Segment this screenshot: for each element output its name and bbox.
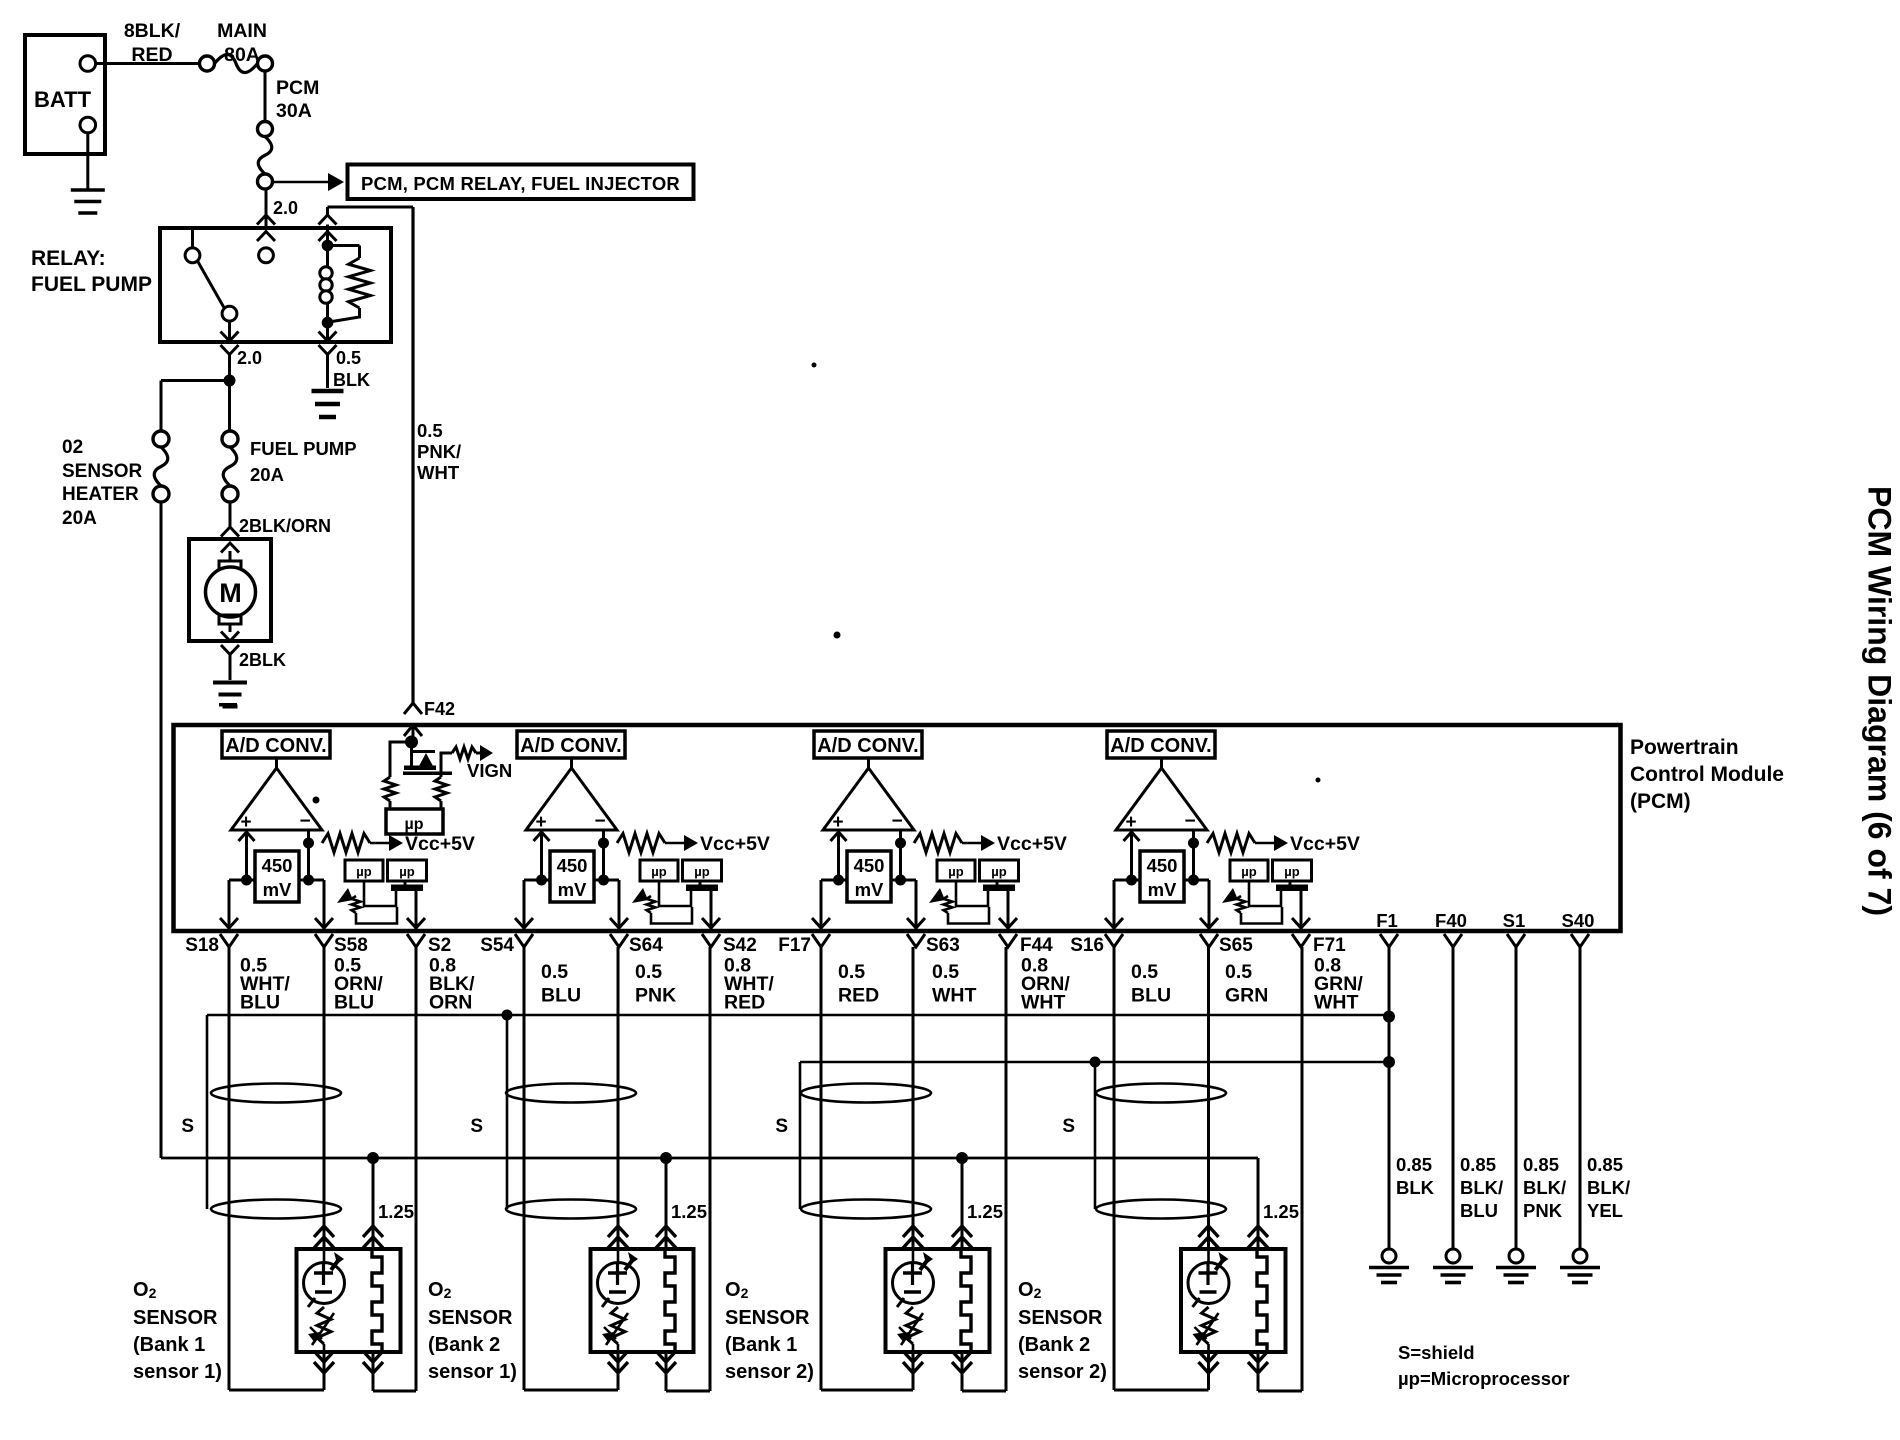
pin S16 <box>1070 934 1123 956</box>
ground battery <box>71 133 105 213</box>
svg-text:WHT: WHT <box>1314 992 1358 1014</box>
svg-text:02: 02 <box>62 437 83 458</box>
svg-text:BLU: BLU <box>1460 1200 1498 1221</box>
pin S2 <box>407 934 451 956</box>
svg-text:F42: F42 <box>424 699 455 719</box>
svg-text:FUEL PUMP: FUEL PUMP <box>250 438 357 459</box>
pin S63 <box>907 934 960 956</box>
fuse O2 SENSOR HEATER 20A <box>153 431 169 502</box>
sensor EMF source 1 <box>304 1249 345 1307</box>
op-amp triangle ch2 <box>526 758 617 833</box>
relay box <box>160 228 391 342</box>
scan artifact dots <box>219 363 1321 804</box>
svg-text:0.5: 0.5 <box>417 420 443 441</box>
junction Vcc resistor ch2 <box>598 838 609 849</box>
wire coil to ground <box>326 355 329 389</box>
relay switch contact <box>222 306 237 321</box>
svg-text:450: 450 <box>262 855 293 876</box>
shield ellipse upper group2 <box>506 1084 636 1103</box>
wire and arrow to feed box <box>274 173 344 191</box>
shield drain group3 <box>799 1062 802 1209</box>
shield drain group2 <box>506 1015 509 1209</box>
svg-text:20A: 20A <box>250 464 284 485</box>
junction Vcc resistor ch4 <box>1188 838 1199 849</box>
svg-text:sensor 2): sensor 2) <box>1018 1361 1107 1383</box>
svg-text:1.25: 1.25 <box>967 1201 1003 1222</box>
svg-text:Vcc+5V: Vcc+5V <box>700 833 770 855</box>
svg-text:mV: mV <box>855 879 884 900</box>
shield bus 2 <box>800 1061 1389 1064</box>
microprocessor bar ch3 <box>983 881 1015 891</box>
pin F71 <box>1292 934 1346 956</box>
svg-text:S: S <box>470 1116 483 1137</box>
op-amp triangle ch1 <box>231 758 322 833</box>
svg-text:S: S <box>181 1116 194 1137</box>
svg-text:BLK/: BLK/ <box>1460 1177 1503 1198</box>
sensor heater resistor 4 <box>1257 1249 1267 1352</box>
svg-text:(Bank 2: (Bank 2 <box>428 1334 500 1356</box>
svg-text:RED: RED <box>838 985 879 1007</box>
label Powertrain Control Module (PCM) <box>1630 736 1784 813</box>
svg-text:RELAY:: RELAY: <box>31 247 106 270</box>
svg-text:0.85: 0.85 <box>1460 1154 1496 1175</box>
svg-text:HEATER: HEATER <box>62 484 139 505</box>
sensor variable resistor 3 <box>897 1307 923 1352</box>
wire sensor element feed 1 <box>323 947 326 1249</box>
svg-text:−: − <box>594 811 605 832</box>
box 450 mV ch3 <box>847 851 891 902</box>
svg-text:BATT: BATT <box>34 87 92 112</box>
shield drain group1 <box>206 1015 209 1209</box>
svg-text:WHT: WHT <box>1021 992 1065 1014</box>
ground BLK <box>1369 1249 1409 1283</box>
label 0.8 BLK/ ORN <box>429 955 475 1014</box>
wire 0.85 BLK/PNK <box>1515 947 1518 1249</box>
label 0.8 ORN/ WHT <box>1021 955 1070 1014</box>
svg-text:BLK/: BLK/ <box>1587 1177 1630 1198</box>
junction shield bus 2 / group4 <box>1090 1057 1101 1068</box>
wire to pin S42 <box>702 891 720 929</box>
svg-text:Vcc+5V: Vcc+5V <box>1290 833 1360 855</box>
label 1.25 sensor2 <box>671 1201 707 1222</box>
VIGN gate wire <box>441 752 452 774</box>
shield ellipse lower group1 <box>211 1200 341 1219</box>
trimmer loop ch2 <box>659 881 691 906</box>
label 8BLK/RED <box>124 20 181 66</box>
label 0.85 BLK/PNK <box>1523 1154 1566 1221</box>
title PCM Wiring Diagram (6 of 7) <box>1862 486 1898 916</box>
svg-text:BLU: BLU <box>334 992 374 1014</box>
junction relay coil bottom <box>322 317 334 329</box>
resistor VIGN left <box>384 777 396 809</box>
pin S42 <box>702 934 757 956</box>
svg-text:1.25: 1.25 <box>378 1201 414 1222</box>
label 2.0 (switch output) <box>237 348 262 368</box>
svg-text:F1: F1 <box>1376 910 1398 931</box>
wire motor to ground <box>229 655 232 681</box>
svg-text:YEL: YEL <box>1587 1200 1623 1221</box>
svg-text:S42: S42 <box>723 935 757 956</box>
arrows out of sensor 4 <box>1199 1351 1269 1373</box>
svg-text:F40: F40 <box>1435 910 1467 931</box>
motor output arrows <box>221 632 239 655</box>
svg-text:0.85: 0.85 <box>1587 1154 1623 1175</box>
op-amp + input ch4 <box>1124 832 1140 880</box>
relay supply pin <box>259 248 274 263</box>
A/D converter box ch2 <box>517 731 625 758</box>
label 1.25 sensor4 <box>1263 1201 1299 1222</box>
label O2 SENSOR 3 <box>725 1279 814 1383</box>
wire to pin F71 <box>1292 891 1310 929</box>
svg-text:µp: µp <box>356 864 371 879</box>
label 0.5 RED <box>838 961 879 1007</box>
svg-text:µp: µp <box>694 864 709 879</box>
label 1.25 sensor1 <box>378 1201 414 1222</box>
O2 sensor box 4 <box>1181 1249 1286 1352</box>
wire sensor bottom 1 <box>324 947 416 1391</box>
wire signal return 3 <box>821 947 913 1390</box>
wire heater feed 4 <box>1257 1158 1260 1249</box>
svg-text:sensor 2): sensor 2) <box>725 1361 814 1383</box>
label VIGN <box>467 760 512 781</box>
svg-text:µp: µp <box>1241 864 1256 879</box>
O2 heater feed bus <box>161 502 1258 1249</box>
VIGN transistor <box>403 742 452 775</box>
wire fuse to motor <box>229 502 232 528</box>
svg-text:SENSOR: SENSOR <box>725 1307 810 1329</box>
svg-text:S54: S54 <box>480 935 514 956</box>
relay coil output arrows <box>319 323 337 355</box>
junction fuel pump / O2 heater <box>224 375 236 387</box>
svg-text:VIGN: VIGN <box>467 760 512 781</box>
svg-text:BLU: BLU <box>240 992 280 1014</box>
label 0.5 WHT <box>932 961 976 1007</box>
op-amp - input ch2 <box>602 830 605 880</box>
trimmer ch3 <box>929 888 989 924</box>
svg-text:sensor 1): sensor 1) <box>133 1361 222 1383</box>
relay coil input arrows <box>319 215 337 241</box>
pin S1 <box>1503 910 1526 947</box>
A/D converter box ch3 <box>814 731 922 758</box>
svg-text:PCM Wiring Diagram (6 of 7): PCM Wiring Diagram (6 of 7) <box>1862 486 1898 916</box>
motor brush bottom <box>219 615 241 632</box>
svg-text:A/D CONV.: A/D CONV. <box>520 735 622 757</box>
svg-text:RED: RED <box>724 992 765 1014</box>
microprocessor boxes ch4 <box>1230 860 1312 881</box>
wire heater feed 2 <box>665 1158 668 1249</box>
O2 sensor box 2 <box>591 1249 694 1352</box>
svg-text:Vcc+5V: Vcc+5V <box>997 833 1067 855</box>
wire sensor element feed 4 <box>1207 947 1210 1249</box>
op-amp + input ch1 <box>239 832 255 880</box>
label S group2 <box>470 1116 483 1137</box>
shield ellipse lower group4 <box>1096 1200 1226 1219</box>
label FUEL PUMP 20A <box>250 438 357 485</box>
box 450 mV ch1 <box>255 851 299 902</box>
label O2 SENSOR HEATER 20A <box>62 437 143 529</box>
svg-text:F71: F71 <box>1313 935 1346 956</box>
label 2.0 (relay feed) <box>273 198 298 218</box>
legend up=Microprocessor <box>1398 1368 1570 1389</box>
wire relay to junction <box>228 355 231 432</box>
label MAIN 80A <box>217 20 267 66</box>
pin S18 <box>185 934 238 956</box>
relay switch output arrows <box>221 321 239 355</box>
svg-text:MAIN: MAIN <box>217 20 267 42</box>
wire to pin S63 <box>907 880 925 929</box>
sensor EMF source 2 <box>598 1249 639 1307</box>
svg-text:80A: 80A <box>224 44 260 66</box>
box 450 mV ch4 <box>1140 851 1184 902</box>
op-amp triangle ch3 <box>823 758 914 833</box>
shield drain group4 <box>1094 1062 1097 1209</box>
trimmer loop ch4 <box>1249 881 1281 906</box>
wire 0.85 BLK/BLU <box>1452 947 1455 1249</box>
label Vcc+5V ch1 <box>405 833 475 855</box>
junctions 450mV ch3 <box>821 875 916 886</box>
svg-text:20A: 20A <box>62 508 97 529</box>
resistor VIGN right <box>435 777 447 809</box>
label Vcc+5V ch2 <box>700 833 770 855</box>
resistor VIGN <box>452 745 493 761</box>
svg-text:PNK: PNK <box>635 985 676 1007</box>
svg-text:SENSOR: SENSOR <box>133 1307 218 1329</box>
svg-text:0.5: 0.5 <box>1225 961 1252 983</box>
label S group1 <box>181 1116 194 1137</box>
svg-text:S: S <box>775 1116 788 1137</box>
relay pin arrows (supply) <box>257 215 275 241</box>
svg-text:GRN: GRN <box>1225 985 1268 1007</box>
wire junction to O2 heater fuse <box>161 381 230 432</box>
svg-text:BLK: BLK <box>333 370 370 390</box>
A/D converter box ch1 <box>222 731 330 758</box>
op-amp - input ch3 <box>899 830 902 880</box>
sensor EMF source 3 <box>893 1249 934 1307</box>
microprocessor boxes ch3 <box>937 860 1019 881</box>
trimmer loop ch1 <box>364 881 396 906</box>
label 2BLK <box>239 650 286 670</box>
arrows into sensor 2 <box>608 1226 676 1248</box>
svg-text:0.5: 0.5 <box>1131 961 1158 983</box>
label Vcc+5V ch3 <box>997 833 1067 855</box>
arrows out of sensor 3 <box>903 1351 972 1373</box>
ground fuel pump motor <box>213 683 247 707</box>
wire to pin S2 <box>407 891 425 929</box>
microprocessor boxes ch2 <box>640 860 722 881</box>
sensor heater resistor 1 <box>372 1249 382 1352</box>
label 0.5 ORN/ BLU <box>334 955 383 1014</box>
svg-text:µp: µp <box>651 864 666 879</box>
svg-text:2BLK: 2BLK <box>239 650 286 670</box>
arrows into sensor 3 <box>903 1226 972 1248</box>
svg-text:A/D CONV.: A/D CONV. <box>225 735 327 757</box>
svg-text:0.85: 0.85 <box>1396 1154 1432 1175</box>
wire gate to right resistor <box>440 774 443 777</box>
wire sensor bottom 3 <box>913 947 1006 1391</box>
ground BLK/YEL <box>1560 1249 1600 1283</box>
legend S=shield <box>1398 1342 1475 1363</box>
wire to pin S18 <box>220 880 238 929</box>
op-amp - input ch1 <box>307 830 310 880</box>
junction Vcc resistor ch3 <box>895 838 906 849</box>
op-amp + input ch3 <box>831 832 847 880</box>
label 1.25 sensor3 <box>967 1201 1003 1222</box>
wire to left resistor <box>390 742 412 777</box>
svg-text:Vcc+5V: Vcc+5V <box>405 833 475 855</box>
svg-text:BLK: BLK <box>1396 1177 1435 1198</box>
sensor heater resistor 3 <box>961 1249 971 1352</box>
svg-text:(PCM): (PCM) <box>1630 790 1691 813</box>
svg-text:2.0: 2.0 <box>273 198 298 218</box>
label 0.8 GRN/ WHT <box>1314 955 1363 1014</box>
wire to pin S16 <box>1105 880 1123 929</box>
svg-text:0.5: 0.5 <box>635 961 662 983</box>
svg-text:S: S <box>1062 1116 1075 1137</box>
svg-text:sensor 1): sensor 1) <box>428 1361 517 1383</box>
label O2 SENSOR 1 <box>133 1279 222 1383</box>
svg-text:S64: S64 <box>629 935 663 956</box>
pin F42 <box>404 699 455 736</box>
sensor variable resistor 2 <box>602 1307 628 1352</box>
motor M <box>206 567 256 617</box>
svg-text:8BLK/: 8BLK/ <box>124 20 181 42</box>
svg-text:µp: µp <box>399 864 414 879</box>
svg-text:BLU: BLU <box>541 985 581 1007</box>
junction Vcc resistor ch1 <box>303 838 314 849</box>
svg-text:S2: S2 <box>428 935 451 956</box>
svg-text:S18: S18 <box>185 935 219 956</box>
wire sensor element feed 2 <box>617 947 620 1249</box>
shield ellipse lower group3 <box>801 1200 931 1219</box>
svg-text:−: − <box>299 811 310 832</box>
wire fuse to relay <box>265 190 268 229</box>
arrows out of sensor 1 <box>314 1351 383 1373</box>
svg-text:mV: mV <box>263 879 292 900</box>
wire sensor element feed 3 <box>912 947 915 1249</box>
svg-text:ORN: ORN <box>429 992 472 1014</box>
svg-text:S63: S63 <box>926 935 960 956</box>
svg-text:S=shield: S=shield <box>1398 1342 1475 1363</box>
box 450 mV ch2 <box>550 851 594 902</box>
svg-text:30A: 30A <box>276 100 312 122</box>
svg-text:SENSOR: SENSOR <box>62 461 143 482</box>
svg-text:mV: mV <box>1148 879 1177 900</box>
wire sensor bottom 4 <box>1209 947 1303 1391</box>
sensor variable resistor 1 <box>308 1307 334 1352</box>
shield ellipse upper group4 <box>1096 1084 1226 1103</box>
svg-text:F44: F44 <box>1020 935 1053 956</box>
shield ellipse lower group2 <box>506 1200 636 1219</box>
svg-text:0.5: 0.5 <box>932 961 959 983</box>
microprocessor bar ch4 <box>1276 881 1308 891</box>
svg-text:S58: S58 <box>334 935 368 956</box>
relay coil <box>320 246 332 323</box>
trimmer ch4 <box>1222 888 1282 924</box>
svg-text:µp=Microprocessor: µp=Microprocessor <box>1398 1368 1570 1389</box>
pin S40 <box>1562 910 1595 947</box>
op-amp triangle ch4 <box>1116 758 1207 833</box>
pin S65 <box>1200 934 1253 956</box>
resistor Vcc+5V ch2 <box>617 834 698 853</box>
svg-text:0.5: 0.5 <box>541 961 568 983</box>
svg-text:1.25: 1.25 <box>1263 1201 1299 1222</box>
svg-text:PNK/: PNK/ <box>417 441 461 462</box>
svg-text:+: + <box>832 812 843 833</box>
relay coil resistor (parallel) <box>328 246 371 323</box>
svg-text:(Bank 2: (Bank 2 <box>1018 1334 1090 1356</box>
pin F44 <box>999 934 1053 956</box>
label RELAY: FUEL PUMP <box>31 247 152 296</box>
resistor Vcc+5V ch3 <box>914 834 995 853</box>
ground relay coil <box>312 391 344 417</box>
wire to pin S65 <box>1200 880 1218 929</box>
op-amp - input ch4 <box>1192 830 1195 880</box>
wire to pin F44 <box>999 891 1017 929</box>
svg-text:+: + <box>535 812 546 833</box>
label PCM 30A <box>276 77 319 122</box>
svg-text:mV: mV <box>558 879 587 900</box>
svg-text:SENSOR: SENSOR <box>1018 1307 1103 1329</box>
svg-text:S1: S1 <box>1503 910 1526 931</box>
svg-text:WHT: WHT <box>417 462 460 483</box>
resistor Vcc+5V ch4 <box>1207 834 1288 853</box>
O2 sensor box 1 <box>297 1249 401 1352</box>
fuel pump motor box <box>189 539 271 641</box>
arrows out of sensor 2 <box>608 1351 676 1373</box>
label O2 SENSOR 4 <box>1018 1279 1107 1383</box>
battery BATT <box>25 35 105 154</box>
shield bus 1 <box>207 1014 1389 1017</box>
wire fuse MAIN to fuse PCM <box>264 71 267 122</box>
sensor EMF source 4 <box>1188 1249 1229 1307</box>
arrows into sensor 4 <box>1199 1226 1269 1248</box>
svg-text:µp: µp <box>405 816 424 833</box>
wire to pin F17 <box>812 880 830 929</box>
svg-text:0.5: 0.5 <box>336 348 361 368</box>
pin S54 <box>480 934 533 956</box>
arrows into sensor 1 <box>314 1226 383 1248</box>
fuse MAIN 80A <box>200 54 273 72</box>
op-amp + input ch2 <box>534 832 550 880</box>
svg-text:+: + <box>240 812 251 833</box>
label 0.85 BLK/BLU <box>1460 1154 1503 1221</box>
trimmer ch1 <box>337 888 397 924</box>
svg-text:A/D CONV.: A/D CONV. <box>817 735 919 757</box>
label 0.85 BLK <box>1396 1154 1435 1198</box>
box PCM, PCM RELAY, FUEL INJECTOR <box>348 165 694 200</box>
fuse PCM 30A <box>258 122 273 190</box>
wire signal return 1 <box>229 947 324 1390</box>
label 0.8 WHT/ RED <box>724 955 774 1014</box>
fuse FUEL PUMP 20A <box>222 431 238 502</box>
trimmer ch2 <box>632 888 692 924</box>
svg-text:1.25: 1.25 <box>671 1201 707 1222</box>
motor input arrows <box>221 527 239 553</box>
junction heater sensor3 <box>956 1152 968 1164</box>
svg-text:S16: S16 <box>1070 935 1104 956</box>
wire heater feed 1 <box>372 1158 375 1249</box>
label 0.85 BLK/YEL <box>1587 1154 1630 1221</box>
junction shield bus 1 / group2 <box>502 1010 513 1021</box>
svg-text:450: 450 <box>1147 855 1178 876</box>
svg-text:µp: µp <box>991 864 1006 879</box>
svg-text:−: − <box>891 811 902 832</box>
svg-text:PNK: PNK <box>1523 1200 1563 1221</box>
relay switch pivot <box>185 230 200 263</box>
label S group4 <box>1062 1116 1075 1137</box>
wire to pin S54 <box>515 880 533 929</box>
wire to pin S64 <box>610 880 628 929</box>
